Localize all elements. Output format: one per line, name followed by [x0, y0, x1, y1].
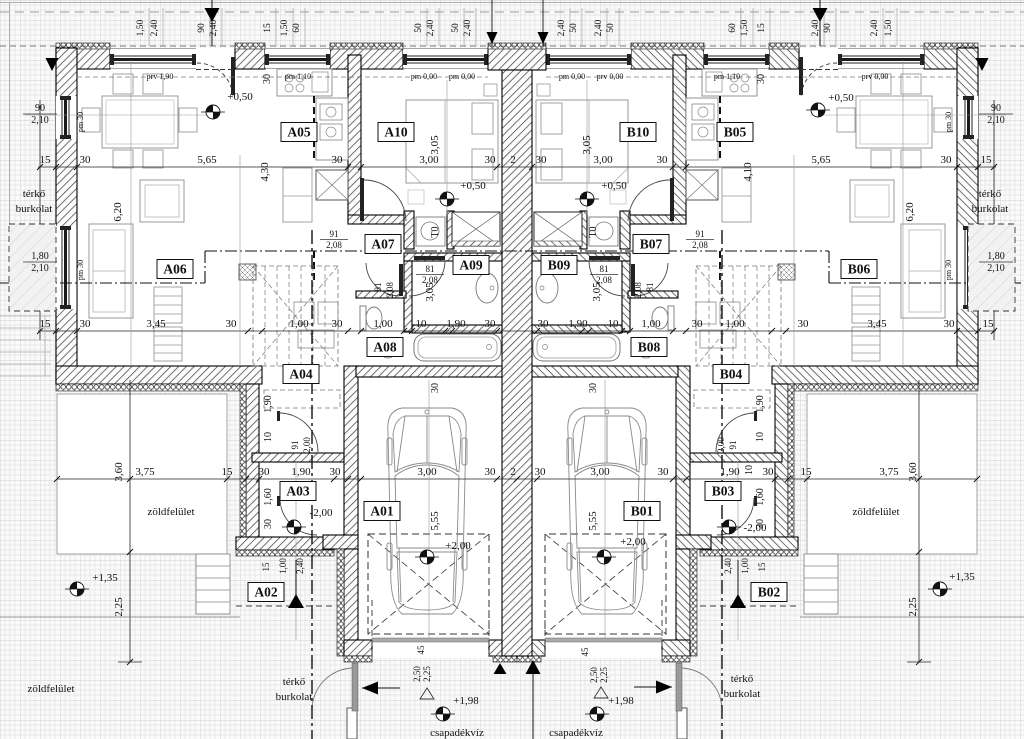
bath middle wall: [412, 325, 502, 333]
svg-text:1,90: 1,90: [568, 318, 588, 330]
svg-text:15: 15: [801, 466, 813, 478]
svg-text:45: 45: [580, 647, 590, 657]
garage west wall lower: [676, 549, 690, 656]
room label B04: [713, 365, 749, 384]
garage door jamb dashes: [661, 600, 663, 658]
exterior paving texture top strip: [0, 0, 1024, 48]
svg-text:2,40: 2,40: [594, 19, 604, 36]
svg-text:2,08: 2,08: [385, 282, 395, 298]
gate door swing arc: [312, 668, 354, 710]
shaft crossed box: [534, 212, 582, 246]
garage door sill: [372, 638, 489, 642]
svg-text:pm 0,00: pm 0,00: [449, 72, 475, 81]
room label A08: [367, 338, 403, 357]
svg-text:2,10: 2,10: [31, 115, 49, 126]
svg-text:15: 15: [983, 318, 995, 330]
survey level marker level right: [933, 582, 947, 596]
svg-text:1,00: 1,00: [289, 318, 309, 330]
svg-text:15: 15: [40, 318, 52, 330]
svg-text:3,00: 3,00: [593, 154, 613, 166]
svg-text:50: 50: [414, 23, 424, 33]
garage bottom wall left segment: [344, 640, 372, 656]
svg-text:1,00: 1,00: [740, 558, 750, 574]
svg-text:30: 30: [485, 466, 497, 478]
room label A06: [157, 260, 193, 279]
extension line window A horizontal: [25, 114, 215, 116]
svg-text:-2,00: -2,00: [744, 522, 767, 534]
svg-text:A03: A03: [286, 484, 309, 499]
room label B02: [751, 583, 787, 602]
fireplace hatched square: [239, 264, 256, 280]
bedroom door arc: [628, 180, 670, 221]
garage bottom wall left segment: [662, 640, 690, 656]
svg-text:zöldfelület: zöldfelület: [147, 506, 194, 518]
top dashed dimension line: [0, 45, 1024, 47]
svg-text:3,00: 3,00: [419, 154, 439, 166]
niche wall right: [580, 211, 587, 249]
wc north wall: [628, 291, 678, 298]
window bedroom (top wall): [546, 50, 631, 68]
survey level marker garage B: [597, 550, 611, 564]
right terrace vertical dimension line: [918, 380, 920, 662]
svg-text:30: 30: [588, 383, 599, 393]
garage B centerline: [604, 380, 606, 638]
svg-text:15: 15: [757, 23, 767, 33]
corridor middle wall A04/A03: [252, 453, 344, 462]
svg-text:1,90: 1,90: [720, 466, 740, 478]
dining chair right: [837, 108, 855, 132]
right margin dimension line: [993, 100, 995, 340]
bath west wall: [404, 261, 412, 332]
svg-text:15: 15: [981, 154, 993, 166]
survey level marker living A: [206, 105, 220, 119]
dimension row y167: [38, 166, 996, 168]
bookshelf: [852, 287, 880, 323]
room label A07: [365, 235, 401, 254]
insulation dot band corridor bottom: [700, 550, 798, 556]
top exterior wall segment mid: [330, 48, 403, 69]
top wall pier at entrance door: [769, 48, 799, 69]
svg-text:6,20: 6,20: [112, 202, 124, 222]
top wall pier at entrance door: [235, 48, 265, 69]
svg-text:2,08: 2,08: [422, 275, 438, 285]
svg-text:2,10: 2,10: [987, 263, 1005, 274]
open triangle level mark left: [420, 688, 434, 699]
svg-text:30: 30: [944, 318, 956, 330]
svg-text:90: 90: [35, 103, 45, 114]
corridor A03 door leaf: [277, 496, 280, 506]
svg-text:+1,98: +1,98: [453, 695, 479, 707]
dashed wall-over line at entrance opening: [799, 69, 838, 71]
nightstand: [537, 84, 550, 96]
svg-text:2,25: 2,25: [422, 666, 432, 682]
dining chair right: [179, 108, 197, 132]
garage block interior white: [356, 377, 678, 642]
kitchen counter dashed edge: [313, 96, 315, 160]
svg-text:3,75: 3,75: [879, 466, 899, 478]
svg-text:A08: A08: [373, 340, 396, 355]
insulation dot band above mid segment: [631, 43, 704, 49]
wall living/bedroom: [348, 55, 361, 221]
corridor bottom wall: [700, 537, 798, 550]
svg-text:50: 50: [606, 23, 616, 33]
corridor bottom wall: [236, 537, 334, 550]
dining chairs top: [113, 74, 133, 94]
window kitchen (top wall): [265, 50, 330, 68]
svg-text:1,90: 1,90: [291, 466, 311, 478]
kitchen side counter with sink: [686, 98, 718, 160]
svg-text:B10: B10: [627, 125, 650, 140]
extension line window B horizontal: [810, 114, 1006, 116]
svg-text:2,08: 2,08: [326, 240, 342, 250]
room label B01: [624, 502, 660, 521]
entrance door leaf: [799, 57, 803, 95]
svg-text:zöldfelület: zöldfelület: [27, 683, 74, 695]
bath A09 door arc: [409, 261, 445, 296]
svg-text:3,45: 3,45: [867, 318, 887, 330]
entrance door swing arc: [197, 63, 233, 97]
exterior paving texture bottom-right: [686, 392, 1024, 739]
bedroom south wall: [624, 215, 686, 224]
garage top wall (bath to garage): [532, 366, 678, 377]
svg-text:30: 30: [798, 318, 810, 330]
left margin dimension line: [39, 100, 41, 340]
bath A09 door threshold: [414, 256, 445, 260]
svg-text:3,05: 3,05: [581, 135, 593, 155]
survey level marker csapadekviz left: [436, 707, 450, 721]
exterior steps bottom-left corner: [0, 315, 51, 317]
svg-text:2,40: 2,40: [209, 19, 219, 36]
extension line kitchen B vertical: [793, 155, 795, 366]
svg-text:prv 0,00: prv 0,00: [597, 72, 624, 81]
svg-text:A01: A01: [370, 504, 393, 519]
svg-text:50: 50: [569, 23, 579, 33]
left wing bottom exterior wall: [772, 366, 978, 384]
stair dashed (upper flight): [253, 266, 338, 366]
svg-text:30: 30: [80, 154, 92, 166]
svg-text:pm 30: pm 30: [944, 260, 953, 280]
svg-text:B01: B01: [631, 504, 654, 519]
svg-text:30: 30: [430, 383, 441, 393]
small arrow top center-right: [542, 0, 544, 46]
section line jog: [204, 251, 206, 283]
garage door sill: [545, 638, 662, 642]
left terrace vertical dimension line: [129, 380, 131, 662]
parking space dashed box: [368, 534, 489, 634]
svg-text:15: 15: [222, 466, 234, 478]
svg-text:2,10: 2,10: [31, 263, 49, 274]
svg-text:A06: A06: [163, 262, 186, 277]
svg-text:81: 81: [600, 264, 609, 274]
svg-text:3,60: 3,60: [907, 462, 919, 482]
svg-text:T0: T0: [430, 226, 441, 237]
svg-text:pm 1,10: pm 1,10: [285, 72, 311, 81]
car in garage B01: [567, 408, 647, 614]
wall-above dashed edge: [313, 251, 315, 283]
room label B08: [631, 338, 667, 357]
room label B06: [841, 260, 877, 279]
exterior paving texture bottom-left: [0, 392, 348, 739]
corridor A03 door arc: [280, 498, 317, 535]
svg-text:30: 30: [226, 318, 238, 330]
svg-text:30: 30: [80, 318, 92, 330]
extension line kitchen A vertical: [239, 155, 241, 366]
svg-text:2,40: 2,40: [463, 19, 473, 36]
svg-text:pm 0,00: pm 0,00: [559, 72, 585, 81]
cabinet tall right: [722, 168, 751, 222]
bed: [406, 100, 498, 183]
svg-text:30: 30: [538, 318, 550, 330]
svg-text:A05: A05: [287, 125, 310, 140]
svg-text:2: 2: [510, 466, 516, 478]
svg-text:burkolat: burkolat: [972, 203, 1009, 215]
svg-text:91: 91: [696, 229, 705, 239]
svg-text:2,08: 2,08: [692, 240, 708, 250]
insulation dot band corridor west: [240, 384, 246, 550]
svg-text:15: 15: [40, 154, 52, 166]
garage west wall upper: [676, 366, 690, 536]
terrace door left wall: [56, 226, 76, 309]
exterior entry steps: [804, 554, 838, 614]
kitchen upper counter: [277, 69, 332, 96]
svg-text:2,25: 2,25: [113, 597, 125, 617]
svg-text:4,10: 4,10: [742, 162, 754, 182]
svg-text:1,00: 1,00: [373, 318, 393, 330]
loveseat: [140, 180, 184, 222]
svg-text:5,65: 5,65: [197, 154, 217, 166]
window bedroom (top wall): [403, 50, 488, 68]
right unit geometry (mirrored): [517, 43, 979, 739]
extension line living B vertical: [902, 60, 904, 366]
svg-text:45: 45: [416, 645, 426, 655]
corridor west wall: [246, 384, 259, 550]
insulation dot band above top wall: [56, 43, 110, 49]
insulation dot band garage west: [690, 549, 697, 656]
svg-text:pm 30: pm 30: [944, 112, 953, 132]
washbasin oval A09: [536, 273, 558, 303]
svg-text:1,00: 1,00: [641, 318, 661, 330]
svg-text:2,08: 2,08: [633, 282, 643, 298]
dashed wall-over line at entrance opening: [196, 69, 235, 71]
plot boundary top line: [0, 2, 1024, 4]
section line right part: [829, 282, 1024, 284]
svg-text:A02: A02: [254, 585, 277, 600]
dining chair left: [82, 108, 100, 132]
wc A08 door leaf: [631, 264, 635, 296]
dining chairs bottom: [901, 150, 921, 168]
toilet A08: [360, 306, 366, 330]
extension line living A vertical: [130, 60, 132, 366]
room label B03: [705, 482, 741, 501]
svg-text:30: 30: [263, 519, 274, 529]
corridor A centerline: [295, 462, 297, 640]
kitchen crossed box: [316, 170, 348, 200]
insulation dot band below wing wall: [56, 384, 240, 391]
svg-text:2,40: 2,40: [557, 19, 567, 36]
exterior paving texture right strip: [978, 48, 1024, 394]
insulation dot band above top wall: [924, 43, 978, 49]
sofa tall: [89, 224, 133, 318]
wc A08 door arc: [635, 263, 668, 296]
washbasin oval A09: [476, 273, 498, 303]
room label A10: [378, 123, 414, 142]
kitchen side counter with sink: [316, 98, 348, 160]
left exterior wall: [56, 48, 77, 384]
car in garage A01: [387, 408, 467, 614]
insulation dot band above mid segment: [330, 43, 403, 49]
room label A02: [248, 583, 284, 602]
property axis line left: [311, 230, 313, 739]
svg-text:2,40: 2,40: [870, 19, 880, 36]
survey level marker hall A03: [287, 520, 301, 534]
svg-text:60: 60: [728, 23, 738, 33]
dining table: [856, 96, 932, 148]
svg-text:A09: A09: [459, 258, 482, 273]
toilet A08: [668, 306, 674, 330]
room label B05: [717, 123, 753, 142]
plot line bottom-right: [800, 616, 1024, 618]
wall living/bedroom: [673, 55, 686, 221]
wall-above dashed edge: [719, 251, 721, 283]
survey level marker garage A: [420, 550, 434, 564]
svg-text:90: 90: [197, 23, 207, 33]
plot boundary dashed line top: [0, 11, 1024, 13]
garage bottom wall center pier half: [489, 640, 517, 656]
svg-text:15: 15: [757, 562, 767, 572]
svg-text:B08: B08: [638, 340, 661, 355]
room label A05: [281, 123, 317, 142]
wc A08 door leaf: [399, 264, 403, 296]
svg-text:2,00: 2,00: [302, 437, 312, 453]
window small left wall: [958, 96, 978, 139]
svg-text:B02: B02: [758, 585, 781, 600]
svg-text:15: 15: [261, 562, 271, 572]
top wall center block: [488, 48, 546, 70]
insulation dot band corridor bottom: [236, 550, 334, 556]
svg-text:50: 50: [451, 23, 461, 33]
bath A09 door arc: [589, 261, 625, 296]
room label B09: [541, 256, 577, 275]
parapet dashed line left rooms: [77, 76, 488, 78]
svg-text:+0,50: +0,50: [601, 180, 627, 192]
svg-text:1,60: 1,60: [755, 488, 766, 506]
garage west wall upper: [344, 366, 358, 536]
corridor B centerline: [737, 462, 739, 640]
top exterior wall segment far-left: [924, 48, 978, 69]
terrace zoldfelulet left white: [57, 394, 227, 554]
svg-text:+2,00: +2,00: [620, 536, 646, 548]
garage top wall (bath to garage): [356, 366, 502, 377]
bath west wall: [622, 261, 630, 332]
corridor middle wall A04/A03: [690, 453, 782, 462]
svg-text:30: 30: [485, 318, 497, 330]
room label A04: [283, 365, 319, 384]
sideboard: [154, 327, 182, 361]
washing machine in niche: [589, 217, 618, 246]
svg-text:2,08: 2,08: [596, 275, 612, 285]
svg-text:2: 2: [510, 154, 516, 166]
svg-text:A04: A04: [289, 367, 312, 382]
svg-text:30: 30: [941, 154, 953, 166]
svg-text:91: 91: [330, 229, 339, 239]
dining chair left: [934, 108, 952, 132]
svg-text:pm 0,00: pm 0,00: [411, 72, 437, 81]
svg-text:90: 90: [823, 23, 833, 33]
svg-text:burkolat: burkolat: [724, 688, 761, 700]
dashed porch line left: [236, 605, 334, 607]
svg-text:81: 81: [426, 264, 435, 274]
exterior paving texture bottom-center forecourt: [348, 658, 686, 739]
svg-text:4,30: 4,30: [259, 162, 271, 182]
insulation dot band center top: [488, 43, 546, 49]
entry arrow B02: [737, 560, 739, 608]
garage west wall step: [676, 535, 711, 549]
svg-text:2,40: 2,40: [150, 19, 160, 36]
svg-text:+2,00: +2,00: [445, 540, 471, 552]
room label A03: [280, 482, 316, 501]
bath middle wall: [532, 325, 622, 333]
exterior entry steps: [196, 554, 230, 614]
insulation dot band garage bottom: [662, 656, 690, 662]
property axis line right: [721, 230, 723, 739]
svg-text:10: 10: [608, 318, 620, 330]
corridor A03 door arc: [717, 498, 754, 535]
corridor A04 door leaf: [277, 411, 280, 421]
svg-text:1,80: 1,80: [31, 251, 49, 262]
insulation dot band above pier: [769, 43, 799, 49]
insulation dot band center pier: [493, 656, 517, 662]
corridor A04 door arc: [279, 413, 318, 452]
central party wall: [502, 70, 532, 656]
garage A centerline: [428, 380, 430, 638]
niche wall left: [404, 211, 414, 249]
svg-text:pm 30: pm 30: [76, 260, 85, 280]
survey level marker bedroom B: [580, 192, 594, 206]
svg-text:1,50: 1,50: [136, 19, 146, 36]
dining table: [102, 96, 178, 148]
svg-text:1,00: 1,00: [725, 318, 745, 330]
svg-text:1,60: 1,60: [263, 488, 274, 506]
kitchen counter dashed edge: [719, 96, 721, 160]
handbasin A08: [379, 338, 397, 358]
hall/bath wall horizontal: [532, 253, 630, 261]
corner arrow left: [46, 58, 59, 71]
svg-text:1,90: 1,90: [446, 318, 466, 330]
svg-text:B06: B06: [848, 262, 871, 277]
corner arrow right: [976, 58, 989, 71]
svg-text:2,40: 2,40: [295, 558, 305, 574]
left unit geometry: [56, 43, 518, 739]
plot line bottom-left: [0, 616, 240, 618]
svg-text:3,05: 3,05: [429, 135, 441, 155]
survey level marker bedroom A: [440, 192, 454, 206]
corridor A04 door arc: [716, 413, 755, 452]
driveway arrow garage A: [494, 663, 507, 674]
garage bottom wall center pier half: [517, 640, 545, 656]
svg-text:60: 60: [292, 23, 302, 33]
terrace zoldfelulet right white: [807, 394, 977, 554]
north/utility arrow top-left: [211, 0, 213, 46]
svg-text:térkő: térkő: [283, 676, 306, 688]
hall/bath wall horizontal: [404, 253, 502, 261]
svg-text:3,00: 3,00: [417, 466, 437, 478]
bedroom B centerline: [586, 80, 588, 215]
window living room (top wall): [838, 50, 924, 68]
bedroom rug: [408, 190, 424, 204]
handbasin A08: [637, 338, 655, 358]
svg-text:T0: T0: [588, 226, 599, 237]
svg-text:2,10: 2,10: [987, 115, 1005, 126]
